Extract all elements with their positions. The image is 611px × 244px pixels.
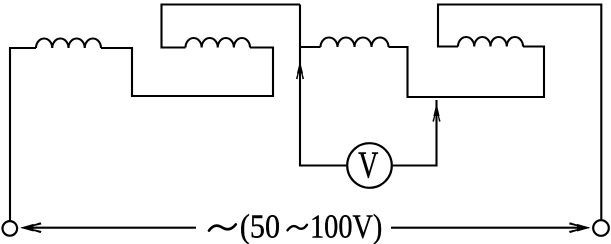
- probe arrow at node A (points up): [297, 61, 303, 73]
- wire: L3 right end down and across to L4: [389, 47, 545, 98]
- wire: voltmeter right lead up to node B: [393, 100, 437, 166]
- inductor L4: [458, 37, 523, 47]
- terminal T2 (bottom right): [593, 220, 609, 236]
- voltmeter U1 circle: [347, 143, 392, 188]
- wire: tap node A vertical (top rail down to voltmeter level): [300, 5, 346, 166]
- wire: node A to inductor L3: [300, 46, 321, 48]
- wire: L4 left end up to top rail and down right side to T2: [438, 5, 601, 220]
- svg-text:100V): 100V): [310, 207, 382, 244]
- arrowhead (left, points to T1): [20, 224, 33, 232]
- inductor L1: [36, 39, 101, 49]
- label: first tilde (AC symbol): [209, 224, 236, 230]
- wire: T1 up to inductor L1: [10, 48, 36, 221]
- probe arrow at node B (points up): [433, 103, 439, 116]
- supply arrow line (right segment): [391, 227, 578, 229]
- terminal T1 (bottom left): [3, 221, 18, 236]
- inductor L3: [321, 38, 389, 48]
- arrowhead (right, points to T2): [577, 224, 590, 232]
- wire: L2 left end up to top rail: [162, 5, 301, 48]
- label: range tilde between 50 and 100V: [288, 225, 308, 231]
- supply arrow line (left segment): [32, 227, 196, 229]
- svg-text:(50: (50: [240, 207, 280, 244]
- inductor L2: [186, 38, 251, 48]
- svg-text:V: V: [358, 144, 378, 186]
- wire: L1 right end, down and across to node at x273: [101, 48, 273, 97]
